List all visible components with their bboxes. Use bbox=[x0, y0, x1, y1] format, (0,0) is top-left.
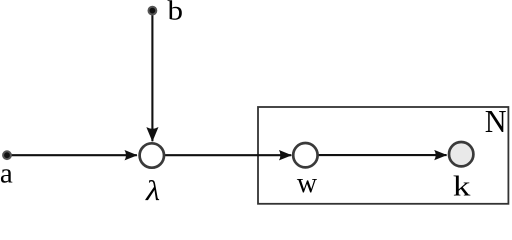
node lambda (circle) bbox=[140, 143, 164, 167]
wire a to lambda bbox=[7, 154, 137, 156]
svg-text:w: w bbox=[297, 168, 318, 199]
wire w to k bbox=[319, 154, 447, 156]
node w (circle) bbox=[293, 143, 317, 167]
node a (dot) bbox=[3, 151, 11, 159]
svg-text:a: a bbox=[0, 157, 13, 189]
node b (dot) bbox=[149, 7, 157, 15]
plate N (rectangle) bbox=[258, 107, 508, 204]
wire lambda to w bbox=[165, 154, 291, 156]
svg-text:k: k bbox=[453, 172, 471, 203]
wire b to lambda bbox=[151, 11, 153, 141]
svg-text:λ: λ bbox=[145, 175, 160, 206]
svg-text:N: N bbox=[485, 104, 507, 139]
node k (shaded circle) bbox=[449, 142, 473, 166]
svg-text:b: b bbox=[168, 0, 184, 26]
